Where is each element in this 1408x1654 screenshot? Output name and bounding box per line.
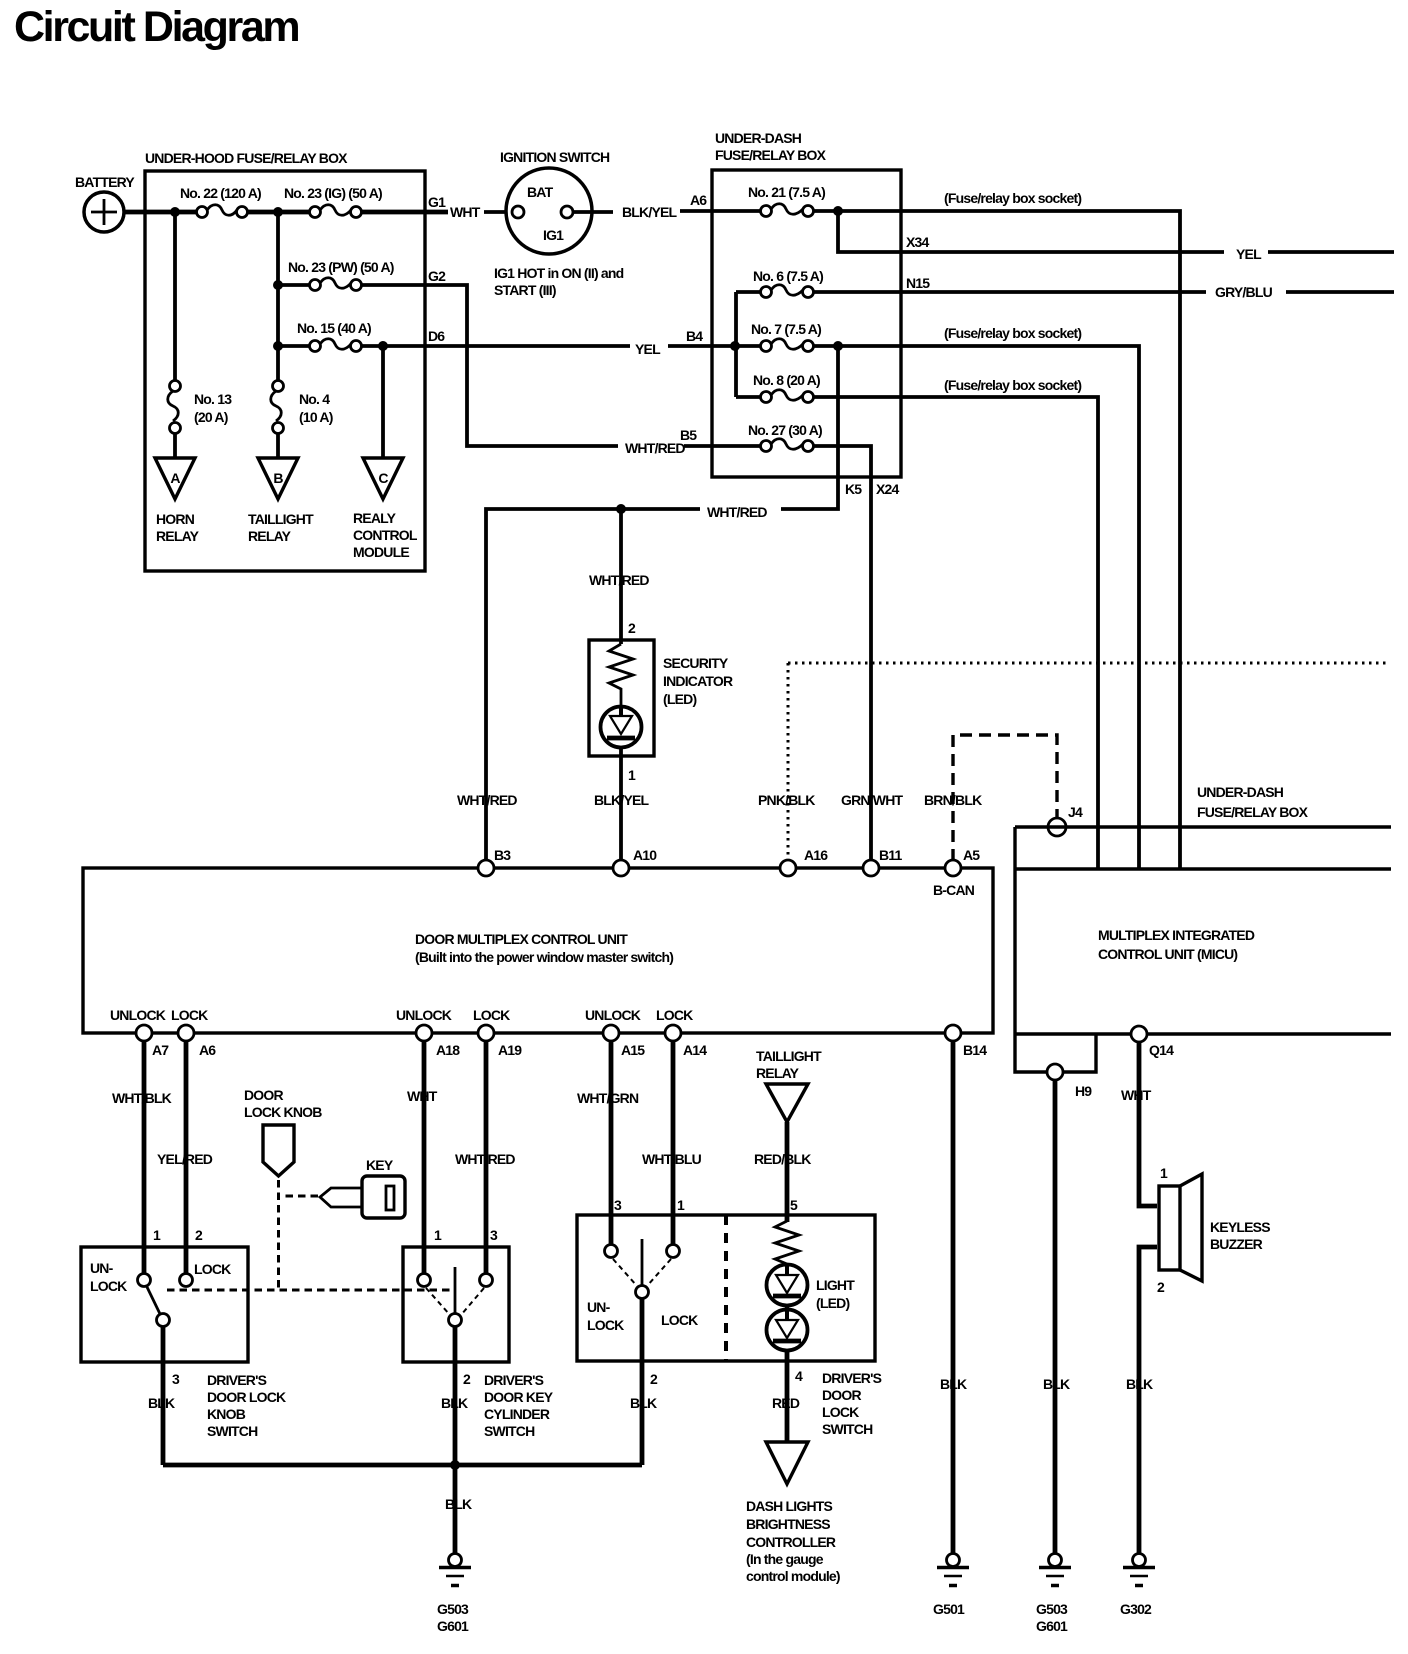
svg-text:A16: A16 (804, 847, 828, 863)
ground G501 (933, 1554, 969, 1618)
wire taillight relay RED/BLK (785, 1122, 790, 1222)
svg-text:YEL/RED: YEL/RED (157, 1151, 213, 1167)
svg-text:G503: G503 (437, 1601, 469, 1617)
driver's door lock switch box (577, 1215, 875, 1361)
svg-text:No. 4: No. 4 (299, 391, 330, 407)
svg-text:RELAY: RELAY (156, 528, 200, 544)
svg-text:WHT/RED: WHT/RED (589, 572, 649, 588)
wire key cylinder pin2 BLK (453, 1327, 458, 1554)
svg-text:BLK/YEL: BLK/YEL (594, 792, 650, 808)
svg-text:B3: B3 (494, 847, 511, 863)
svg-text:(LED): (LED) (816, 1295, 849, 1311)
svg-text:FUSE/RELAY BOX: FUSE/RELAY BOX (1197, 804, 1309, 820)
svg-text:G1: G1 (428, 194, 446, 210)
svg-text:START (III): START (III) (494, 282, 556, 298)
svg-text:G302: G302 (1120, 1601, 1152, 1617)
svg-text:B: B (273, 470, 283, 486)
svg-text:1: 1 (677, 1197, 685, 1213)
junction No.15 row (273, 341, 283, 351)
svg-text:WHT/BLK: WHT/BLK (112, 1090, 172, 1106)
svg-text:5: 5 (790, 1197, 798, 1213)
svg-text:WHT: WHT (450, 204, 481, 220)
wire A6 YEL/RED (184, 1041, 189, 1275)
terminal A18 (416, 1025, 432, 1041)
taillight relay triangle (756, 1048, 822, 1122)
svg-text:WHT/RED: WHT/RED (625, 440, 685, 456)
fuse No.27 30A (748, 422, 822, 452)
svg-text:(20 A): (20 A) (194, 409, 228, 425)
wire fuse8 row to socket (736, 397, 1098, 869)
wire buzzer pin2 to G302 (1139, 1247, 1157, 1554)
wire dotted PNK/BLK (788, 663, 1388, 861)
junction BLK bus (450, 1460, 460, 1470)
junction No.7/K5 (833, 341, 843, 351)
wire vertical to horn relay (173, 212, 177, 458)
svg-text:B11: B11 (879, 847, 903, 863)
svg-text:A19: A19 (498, 1042, 522, 1058)
svg-text:B-CAN: B-CAN (933, 882, 975, 898)
svg-text:No. 22 (120 A): No. 22 (120 A) (180, 185, 261, 201)
wire fuse7 row to socket (712, 346, 1139, 869)
fuse No.22 120A (180, 185, 261, 218)
ground G503/G601 right (1036, 1554, 1071, 1635)
svg-text:WHT/GRN: WHT/GRN (577, 1090, 639, 1106)
svg-text:N15: N15 (906, 275, 930, 291)
svg-text:UNDER-DASH: UNDER-DASH (715, 130, 802, 146)
wire A19 WHT/RED (484, 1041, 489, 1275)
terminal H9 (1047, 1064, 1063, 1080)
svg-text:G2: G2 (428, 268, 446, 284)
svg-text:(Fuse/relay box socket): (Fuse/relay box socket) (944, 325, 1081, 341)
svg-text:K5: K5 (845, 481, 862, 497)
svg-text:Circuit Diagram: Circuit Diagram (14, 3, 298, 51)
svg-text:DOOR: DOOR (822, 1387, 861, 1403)
svg-text:LOCK: LOCK (822, 1404, 859, 1420)
svg-text:LOCK KNOB: LOCK KNOB (244, 1104, 322, 1120)
key cylinder stub (454, 1267, 457, 1314)
terminal A6 (178, 1025, 194, 1041)
svg-text:TAILLIGHT: TAILLIGHT (248, 511, 314, 527)
svg-text:BLK: BLK (445, 1496, 472, 1512)
svg-text:DASH LIGHTS: DASH LIGHTS (746, 1498, 833, 1514)
wire A15 WHT/GRN (609, 1041, 614, 1246)
svg-text:WHT/BLU: WHT/BLU (642, 1151, 702, 1167)
svg-text:WHT: WHT (1121, 1087, 1152, 1103)
svg-text:A6: A6 (199, 1042, 216, 1058)
svg-text:No. 21 (7.5 A): No. 21 (7.5 A) (748, 184, 825, 200)
svg-text:B5: B5 (680, 427, 697, 443)
svg-text:4: 4 (795, 1368, 803, 1384)
svg-text:No. 7 (7.5 A): No. 7 (7.5 A) (751, 321, 821, 337)
svg-text:BLK: BLK (630, 1395, 657, 1411)
wire G2 to B5 WHT/RED (425, 285, 618, 446)
door lock knob (244, 1087, 322, 1176)
svg-text:(In the gauge: (In the gauge (746, 1551, 824, 1567)
dashed link key to knob (283, 1195, 318, 1198)
svg-text:3: 3 (490, 1227, 498, 1243)
svg-text:CONTROLLER: CONTROLLER (746, 1534, 836, 1550)
svg-text:X34: X34 (906, 234, 930, 250)
under-dash fuse/relay box right strip (1015, 827, 1391, 869)
svg-text:REALY: REALY (353, 510, 397, 526)
LED light 1 (767, 1264, 808, 1306)
wire fuse6 row N15 GRY/BLU (736, 290, 1206, 294)
wire K5 WHT/RED down (781, 346, 838, 509)
battery B1 (84, 192, 124, 232)
svg-text:D6: D6 (428, 328, 445, 344)
svg-text:BAT: BAT (527, 184, 554, 200)
fuse No.15 40A (297, 320, 371, 352)
svg-text:WHT: WHT (407, 1088, 438, 1104)
wire No.15 row to D6 (278, 344, 425, 348)
svg-text:YEL: YEL (635, 341, 661, 357)
svg-text:G601: G601 (1036, 1618, 1068, 1634)
svg-text:BRIGHTNESS: BRIGHTNESS (746, 1516, 830, 1532)
svg-text:J4: J4 (1068, 804, 1083, 820)
svg-text:YEL: YEL (1236, 246, 1262, 262)
terminal B11 (863, 860, 879, 876)
svg-text:(Fuse/relay box socket): (Fuse/relay box socket) (944, 377, 1081, 393)
wire lock switch pin2 BLK (640, 1299, 645, 1465)
svg-text:H9: H9 (1075, 1083, 1092, 1099)
svg-text:1: 1 (434, 1227, 442, 1243)
svg-text:GRN/WHT: GRN/WHT (841, 792, 904, 808)
svg-text:B4: B4 (686, 328, 703, 344)
svg-text:(Built into the power window m: (Built into the power window master swit… (415, 949, 673, 965)
svg-text:BLK: BLK (441, 1395, 468, 1411)
svg-text:RELAY: RELAY (248, 528, 292, 544)
wire Q14 WHT to buzzer (1139, 1042, 1157, 1206)
svg-text:SWITCH: SWITCH (207, 1423, 258, 1439)
svg-text:3: 3 (172, 1371, 180, 1387)
wire A18 WHT (422, 1041, 427, 1275)
svg-text:A: A (170, 470, 180, 486)
svg-text:UNLOCK: UNLOCK (585, 1007, 641, 1023)
svg-text:BLK: BLK (1043, 1376, 1070, 1392)
keyless buzzer (1157, 1165, 1270, 1295)
terminal A19 (478, 1025, 494, 1041)
svg-text:A5: A5 (963, 847, 980, 863)
svg-text:WHT/RED: WHT/RED (457, 792, 517, 808)
switch arms key cylinder (426, 1288, 484, 1315)
svg-text:No. 23 (IG) (50 A): No. 23 (IG) (50 A) (284, 185, 382, 201)
resistor light LED (775, 1221, 799, 1264)
terminal A15 (603, 1025, 619, 1041)
svg-text:A18: A18 (436, 1042, 460, 1058)
svg-text:No. 23 (PW) (50 A): No. 23 (PW) (50 A) (288, 259, 394, 275)
junction bus/No.13 (170, 207, 180, 217)
wire fuse27 row to X24 GRN/WHT (712, 446, 871, 868)
terminal A14 (665, 1025, 681, 1041)
terminal A10 (613, 860, 629, 876)
svg-text:LOCK: LOCK (194, 1261, 231, 1277)
dashed link knob to switches (167, 1289, 452, 1292)
wire vertical to taillight relay (276, 212, 280, 458)
relay C realy control module (353, 458, 418, 560)
svg-text:IG1: IG1 (543, 227, 564, 243)
terminal B3 (478, 860, 494, 876)
svg-text:RED: RED (772, 1395, 800, 1411)
node J4 (1048, 818, 1066, 836)
svg-text:C: C (378, 470, 388, 486)
svg-text:INDICATOR: INDICATOR (663, 673, 733, 689)
svg-text:(LED): (LED) (663, 691, 696, 707)
svg-text:UNDER-HOOD FUSE/RELAY BOX: UNDER-HOOD FUSE/RELAY BOX (145, 150, 348, 166)
svg-text:PNK/BLK: PNK/BLK (758, 792, 815, 808)
svg-text:A14: A14 (683, 1042, 707, 1058)
svg-text:WHT/RED: WHT/RED (455, 1151, 515, 1167)
lock switch stub (641, 1239, 644, 1286)
svg-text:FUSE/RELAY BOX: FUSE/RELAY BOX (715, 147, 827, 163)
svg-text:G601: G601 (437, 1618, 469, 1634)
svg-text:DOOR: DOOR (244, 1087, 283, 1103)
svg-text:(10 A): (10 A) (299, 409, 333, 425)
svg-text:CONTROL UNIT (MICU): CONTROL UNIT (MICU) (1098, 946, 1237, 962)
fuse No.7 7.5A (751, 321, 821, 352)
fuse No.6 7.5A (753, 268, 823, 298)
relay B taillight (248, 458, 314, 544)
dash lights brightness controller triangle (746, 1442, 840, 1584)
svg-text:UNLOCK: UNLOCK (110, 1007, 166, 1023)
junction No.21/X34 (833, 206, 843, 216)
svg-text:UNDER-DASH: UNDER-DASH (1197, 784, 1284, 800)
svg-text:No. 27 (30 A): No. 27 (30 A) (748, 422, 822, 438)
svg-text:KEYLESS: KEYLESS (1210, 1219, 1270, 1235)
svg-text:A15: A15 (621, 1042, 645, 1058)
terminal A5 (945, 860, 961, 876)
LED light 2 (767, 1277, 856, 1351)
svg-text:HORN: HORN (156, 511, 195, 527)
terminal A16 (780, 860, 796, 876)
wire A14 WHT/BLU (671, 1041, 676, 1246)
switch arm knob switch (147, 1287, 161, 1316)
svg-text:SECURITY: SECURITY (663, 655, 729, 671)
fuse No.13 20A (168, 381, 232, 434)
svg-text:BUZZER: BUZZER (1210, 1236, 1263, 1252)
key (320, 1157, 405, 1218)
svg-text:LIGHT: LIGHT (816, 1277, 855, 1293)
svg-text:A6: A6 (690, 192, 707, 208)
svg-text:DRIVER'S: DRIVER'S (207, 1372, 267, 1388)
wire knob switch pin3 BLK (161, 1327, 166, 1465)
junction B4/fuse bus (730, 341, 740, 351)
wire fuse21 row to socket (712, 211, 1180, 869)
svg-text:SWITCH: SWITCH (484, 1423, 535, 1439)
svg-text:CYLINDER: CYLINDER (484, 1406, 550, 1422)
terminal A7 (136, 1025, 152, 1041)
svg-text:A10: A10 (633, 847, 657, 863)
security indicator LED box (589, 640, 733, 756)
junction No.23PW row (273, 280, 283, 290)
wire H9 to G503 (1053, 1080, 1058, 1554)
svg-text:DOOR KEY: DOOR KEY (484, 1389, 554, 1405)
wire ignition to A6 (573, 210, 613, 214)
svg-text:A7: A7 (152, 1042, 169, 1058)
switch arms lock switch (613, 1259, 671, 1286)
svg-text:LOCK: LOCK (90, 1278, 127, 1294)
under-dash fuse/relay box (712, 170, 901, 477)
wire B14 to G501 (951, 1041, 956, 1554)
svg-text:BRN/BLK: BRN/BLK (924, 792, 982, 808)
svg-text:2: 2 (463, 1371, 471, 1387)
svg-text:BATTERY: BATTERY (75, 174, 135, 190)
svg-text:G503: G503 (1036, 1601, 1068, 1617)
fuse No.23 PW 50A (288, 259, 394, 291)
junction bus/No.23 (273, 207, 283, 217)
svg-text:G501: G501 (933, 1601, 965, 1617)
svg-text:DOOR LOCK: DOOR LOCK (207, 1389, 286, 1405)
wire A7 WHT/BLK (142, 1041, 147, 1275)
multiplex integrated control unit MICU box (1015, 827, 1391, 1072)
svg-text:3: 3 (614, 1197, 622, 1213)
svg-text:LOCK: LOCK (656, 1007, 693, 1023)
fuse No.23 IG 50A (284, 185, 382, 218)
junction WHT/RED security branch (616, 504, 626, 514)
fuse No.21 7.5A (748, 184, 825, 217)
svg-text:LOCK: LOCK (171, 1007, 208, 1023)
svg-text:No. 15 (40 A): No. 15 (40 A) (297, 320, 371, 336)
svg-text:DRIVER'S: DRIVER'S (484, 1372, 544, 1388)
svg-text:KEY: KEY (366, 1157, 394, 1173)
svg-text:LOCK: LOCK (587, 1317, 624, 1333)
svg-text:No. 8 (20 A): No. 8 (20 A) (753, 372, 820, 388)
wire to relay control module (381, 346, 385, 458)
wire X34 YEL (838, 211, 1224, 252)
under-hood fuse/relay box (145, 171, 425, 571)
wire dashed BRN/BLK (953, 735, 1057, 861)
wire security indicator branch (619, 509, 623, 644)
svg-text:DOOR MULTIPLEX CONTROL UNIT: DOOR MULTIPLEX CONTROL UNIT (415, 931, 628, 947)
svg-text:No. 6 (7.5 A): No. 6 (7.5 A) (753, 268, 823, 284)
svg-text:KNOB: KNOB (207, 1406, 246, 1422)
svg-text:1: 1 (153, 1227, 161, 1243)
fuse No.4 10A (271, 381, 333, 434)
svg-text:LOCK: LOCK (661, 1312, 698, 1328)
svg-text:X24: X24 (876, 481, 900, 497)
svg-text:IGNITION SWITCH: IGNITION SWITCH (500, 149, 610, 165)
svg-text:Q14: Q14 (1149, 1042, 1174, 1058)
svg-text:LOCK: LOCK (473, 1007, 510, 1023)
wire battery bus (124, 210, 448, 215)
svg-text:RELAY: RELAY (756, 1065, 800, 1081)
svg-text:1: 1 (1160, 1165, 1168, 1181)
ignition switch (494, 149, 624, 298)
svg-text:BLK: BLK (148, 1395, 175, 1411)
svg-text:IG1 HOT in ON (II) and: IG1 HOT in ON (II) and (494, 265, 624, 281)
svg-text:B14: B14 (963, 1042, 987, 1058)
ground G302 (1120, 1554, 1155, 1618)
dashed link knob down (277, 1180, 280, 1290)
svg-text:DRIVER'S: DRIVER'S (822, 1370, 882, 1386)
wire bottom BLK bus (163, 1463, 642, 1468)
ground G503/G601 left (437, 1554, 471, 1635)
svg-text:No. 13: No. 13 (194, 391, 232, 407)
svg-text:1: 1 (628, 767, 636, 783)
terminal Q14 (1131, 1026, 1147, 1042)
svg-text:MULTIPLEX INTEGRATED: MULTIPLEX INTEGRATED (1098, 927, 1255, 943)
svg-text:2: 2 (1157, 1279, 1165, 1295)
svg-text:BLK: BLK (1126, 1376, 1153, 1392)
svg-text:2: 2 (628, 620, 636, 636)
driver's door lock knob switch box (81, 1247, 248, 1362)
door multiplex control unit box (83, 868, 993, 1033)
relay A horn (155, 458, 200, 544)
wire G1 to ignition (484, 210, 513, 214)
svg-text:WHT/RED: WHT/RED (707, 504, 767, 520)
fuse No.8 20A (753, 372, 820, 403)
svg-text:MODULE: MODULE (353, 544, 409, 560)
svg-text:UN-: UN- (90, 1260, 114, 1276)
svg-text:2: 2 (195, 1227, 203, 1243)
wire D6 to B4 YEL (425, 344, 630, 348)
svg-text:BLK: BLK (940, 1376, 967, 1392)
wire light to dash controller RED (785, 1350, 790, 1442)
junction relay C branch (378, 341, 388, 351)
svg-text:TAILLIGHT: TAILLIGHT (756, 1048, 822, 1064)
driver's door key cylinder switch box (403, 1247, 509, 1362)
svg-text:SWITCH: SWITCH (822, 1421, 873, 1437)
wire No.23 PW row to G2 (278, 283, 425, 287)
svg-text:(Fuse/relay box socket): (Fuse/relay box socket) (944, 190, 1081, 206)
wire left bus fuse6-8 (734, 292, 738, 397)
svg-text:GRY/BLU: GRY/BLU (1215, 284, 1273, 300)
svg-text:2: 2 (650, 1371, 658, 1387)
svg-text:RED/BLK: RED/BLK (754, 1151, 811, 1167)
svg-text:control module): control module) (746, 1568, 840, 1584)
svg-text:CONTROL: CONTROL (353, 527, 418, 543)
wire LED to A10 (619, 749, 623, 868)
svg-text:UNLOCK: UNLOCK (396, 1007, 452, 1023)
svg-text:UN-: UN- (587, 1299, 611, 1315)
svg-text:BLK/YEL: BLK/YEL (622, 204, 678, 220)
